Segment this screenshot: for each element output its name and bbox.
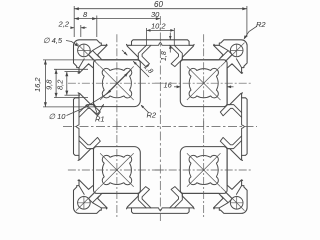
web TR to vertical-face tooth, with fin into cavity xyxy=(220,105,241,118)
svg-text:R2: R2 xyxy=(256,20,266,29)
dimension 10,2 (tooth inner width) xyxy=(147,28,175,46)
dimension 16 (core block) xyxy=(174,86,234,88)
dimension 9,8 (face opening) xyxy=(54,69,88,97)
core hole diagonal centermarks TR xyxy=(187,66,221,100)
svg-text:9,8: 9,8 xyxy=(45,79,54,90)
core hole BR (D10 with corner lobes) xyxy=(189,155,218,184)
corner hole centermark BL xyxy=(76,187,100,211)
dimension 1,8 web (diagonal) xyxy=(122,50,149,77)
core block TL xyxy=(94,60,141,107)
corner hole BL (D4.5) xyxy=(78,197,91,210)
corner web TL xyxy=(79,45,101,67)
web TL to horizontal-face tooth, with fin into cavity xyxy=(138,45,151,66)
centerlines of core TR xyxy=(155,34,253,132)
corner web BL xyxy=(79,186,101,208)
core hole diagonal centermarks BR xyxy=(187,153,221,187)
dimension 16,2 (slot cavity width) xyxy=(43,60,95,107)
core hole TL (D10 with corner lobes) xyxy=(102,68,132,98)
svg-text:10,2: 10,2 xyxy=(151,22,166,31)
centerlines of core BR xyxy=(155,121,253,219)
svg-text:∅ 10: ∅ 10 xyxy=(49,112,67,121)
svg-text:8: 8 xyxy=(83,10,88,19)
core hole TR (D10 with corner lobes) xyxy=(189,68,218,97)
dimension 30 xyxy=(74,18,160,20)
inner wall line under top/bottom face tooth BL xyxy=(132,208,161,211)
corner hole centermark TL xyxy=(76,43,100,67)
dimension 8,2 (slot opening) xyxy=(65,72,81,96)
inner wall line under top/bottom face tooth TR xyxy=(160,43,189,46)
web TR to horizontal-face tooth, with fin into cavity xyxy=(170,45,183,66)
inner wall line under side face tooth TL xyxy=(76,98,79,127)
inner wall line under top/bottom face tooth BR xyxy=(160,208,189,211)
centerlines of core BL xyxy=(68,121,166,219)
corner hole BR (D4.5) xyxy=(230,197,243,210)
profile outer contour with T-slots xyxy=(74,40,248,214)
inner wall line under side face tooth BR xyxy=(242,127,245,156)
svg-text:R2: R2 xyxy=(147,111,157,120)
dimension 60 (overall width) xyxy=(74,6,247,37)
core block TR xyxy=(180,60,227,107)
svg-text:1,8: 1,8 xyxy=(142,63,154,75)
core hole BL (D10 with corner lobes) xyxy=(102,155,131,184)
web BL to vertical-face tooth, with fin into cavity xyxy=(79,136,100,149)
web TL to vertical-face tooth, with fin into cavity xyxy=(79,105,100,118)
svg-text:∅ 4,5: ∅ 4,5 xyxy=(43,36,63,45)
web BR to horizontal-face tooth, with fin into cavity xyxy=(170,187,183,208)
svg-text:60: 60 xyxy=(154,0,163,9)
svg-text:16: 16 xyxy=(164,81,173,90)
dimension 2,2 xyxy=(71,25,87,37)
inner wall line under side face tooth BL xyxy=(76,127,79,156)
svg-text:2,2: 2,2 xyxy=(58,20,70,29)
svg-text:1,8: 1,8 xyxy=(161,51,168,61)
dimension 8 (corner flat) xyxy=(96,16,98,38)
web BR to vertical-face tooth, with fin into cavity xyxy=(220,136,241,149)
corner hole centermark TR xyxy=(221,43,245,67)
profile main horizontal centerline xyxy=(63,126,257,128)
web BL to horizontal-face tooth, with fin into cavity xyxy=(138,187,151,208)
core block BL xyxy=(94,147,141,194)
leader R2 core corner xyxy=(141,105,148,112)
core hole diagonal centermarks TL xyxy=(100,66,134,100)
corner web TR xyxy=(219,45,241,67)
profile main vertical centerline xyxy=(159,16,161,221)
corner hole TL (D4.5) xyxy=(78,44,91,57)
corner web BR xyxy=(219,186,241,208)
svg-text:R1: R1 xyxy=(95,115,105,124)
core hole diagonal centermarks BL xyxy=(100,153,134,187)
corner hole centermark BR xyxy=(221,187,245,211)
leader D4,5 corner hole xyxy=(66,41,78,47)
core block BR xyxy=(180,147,227,194)
leader R2 top-right corner xyxy=(244,27,256,39)
centerlines of core TL xyxy=(68,34,166,132)
leader and diameter line D10 core hole xyxy=(67,70,132,116)
svg-text:30: 30 xyxy=(151,10,160,19)
svg-text:16,2: 16,2 xyxy=(33,77,42,92)
leader R1 (three arrows) xyxy=(86,103,104,114)
inner wall line under top/bottom face tooth TL xyxy=(132,43,161,46)
inner wall line under side face tooth TR xyxy=(242,98,245,127)
corner hole TR (D4.5) xyxy=(230,44,243,57)
dimension 1,8 wall (vertical, at top tooth) xyxy=(169,33,171,53)
svg-text:8,2: 8,2 xyxy=(56,79,65,90)
